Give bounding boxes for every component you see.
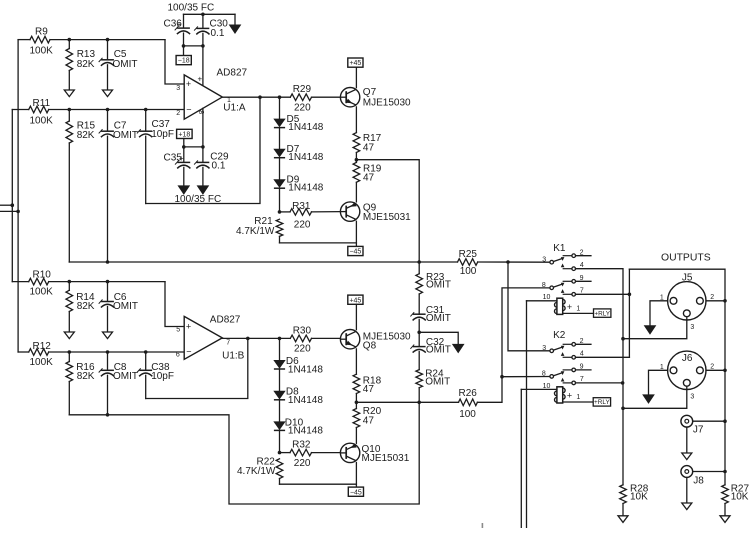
label C31	[426, 305, 445, 316]
label R19 value	[363, 172, 375, 183]
svg-text:R29: R29	[293, 84, 312, 95]
svg-text:R26: R26	[459, 388, 478, 399]
label R32	[292, 440, 311, 451]
capacitor C30	[194, 14, 209, 46]
svg-text:47: 47	[363, 172, 375, 183]
svg-text:1N4148: 1N4148	[288, 395, 323, 406]
label R25	[459, 249, 478, 260]
power +45 (Q7)	[348, 58, 363, 88]
label C36	[164, 19, 183, 30]
wire K1 pin7 to bus	[576, 293, 630, 295]
resistor R27	[722, 485, 729, 516]
label R32 value	[294, 458, 311, 469]
label J5 pin2	[710, 294, 714, 301]
label R16	[76, 362, 95, 373]
node C35 top	[182, 145, 186, 149]
label R18	[363, 375, 382, 386]
svg-text:+: +	[186, 322, 191, 332]
transistor Q9	[340, 202, 359, 221]
label R22 value	[237, 466, 276, 477]
svg-text:100K: 100K	[30, 115, 54, 126]
resistor R31	[280, 209, 341, 216]
svg-text:100K: 100K	[30, 357, 54, 368]
svg-text:82K: 82K	[77, 301, 95, 312]
svg-text:3: 3	[542, 345, 546, 352]
svg-text:K1: K1	[553, 243, 566, 254]
svg-text:10K: 10K	[630, 492, 648, 503]
resistor R26	[459, 288, 550, 406]
label R20 value	[363, 416, 375, 427]
label D10 value	[288, 426, 323, 437]
label C30	[210, 18, 229, 29]
svg-text:82K: 82K	[77, 130, 95, 141]
label R11	[33, 98, 51, 109]
label R26 value	[459, 409, 476, 420]
capacitor C38	[137, 352, 152, 399]
label D7 value	[288, 152, 323, 163]
svg-text:R32: R32	[292, 440, 311, 451]
wire Q8 emitter	[355, 349, 357, 374]
capacitor C6	[99, 282, 114, 332]
wire Q7 emitter	[355, 107, 357, 133]
wire page mark	[481, 523, 483, 528]
wire J5 pin2	[706, 300, 725, 302]
wire K1 pin10	[527, 300, 557, 302]
op-amp U1:B	[184, 316, 222, 359]
label R15 value	[77, 130, 95, 141]
node C8 top	[106, 350, 110, 354]
label K2 pin4	[580, 351, 584, 358]
label K1 pin9	[580, 275, 584, 282]
label Q8	[363, 340, 377, 351]
label D5	[287, 114, 300, 125]
svg-text:0.1: 0.1	[211, 28, 225, 39]
svg-text:OMIT: OMIT	[426, 345, 451, 356]
svg-text:5: 5	[176, 326, 180, 333]
label D9	[287, 174, 300, 185]
label J6 pin1	[660, 364, 664, 371]
label Q10	[362, 444, 381, 455]
resistor R28	[620, 485, 627, 516]
label R10	[33, 269, 52, 280]
label K1 pin1	[576, 306, 580, 313]
svg-text:82K: 82K	[77, 371, 95, 382]
capacitor C32	[410, 332, 425, 369]
wire vertical net R11/R10	[11, 110, 13, 282]
label R28 value	[630, 492, 648, 503]
svg-text:3: 3	[690, 324, 694, 331]
ground C5	[103, 90, 113, 97]
resistor R11	[12, 106, 184, 113]
label K2 pin9	[580, 364, 584, 371]
label C7 value	[113, 130, 138, 141]
resistor R14	[66, 282, 73, 332]
svg-text:7: 7	[226, 339, 230, 346]
svg-text:220: 220	[294, 219, 311, 230]
wire K1 coil to +RLY	[563, 312, 594, 314]
svg-text:10K: 10K	[731, 492, 749, 503]
label R30	[293, 325, 312, 336]
svg-text:MJE15030: MJE15030	[363, 98, 411, 109]
label J7	[693, 425, 704, 436]
label R21	[254, 216, 273, 227]
svg-text:3: 3	[690, 393, 694, 400]
ground arrow C35	[178, 186, 189, 194]
label U1:B minus	[186, 347, 191, 357]
svg-text:2: 2	[176, 110, 180, 117]
label J8	[693, 475, 704, 486]
resistor R15	[66, 110, 73, 263]
svg-text:MJE15031: MJE15031	[363, 212, 411, 223]
resistor R29	[290, 94, 340, 101]
node R24 bottom	[417, 401, 421, 405]
relay K2 pole2	[550, 368, 592, 385]
label C29	[210, 151, 229, 162]
svg-text:−45: −45	[350, 489, 362, 496]
label R13 value	[77, 59, 95, 70]
capacitor C8	[99, 352, 114, 415]
svg-text:8: 8	[542, 282, 546, 289]
node C8 bottom	[106, 413, 110, 417]
node J8 bus	[723, 470, 727, 474]
node output A mid	[355, 158, 359, 162]
svg-text:47: 47	[363, 416, 375, 427]
label R26	[459, 388, 478, 399]
op-amp U1:A	[184, 75, 222, 119]
label R10 value	[30, 286, 54, 297]
label U1:A minus	[186, 105, 191, 115]
node C36 bottom	[182, 44, 186, 48]
label K2 coil plus	[567, 390, 572, 400]
power -18	[176, 46, 191, 65]
svg-text:+: +	[567, 390, 572, 400]
svg-text:82K: 82K	[77, 59, 95, 70]
wire R22 to -45	[280, 483, 357, 485]
svg-text:8: 8	[542, 371, 546, 378]
label R31	[292, 201, 311, 212]
diode D10	[274, 400, 285, 431]
label U1:A Vplus marker	[198, 75, 203, 84]
svg-text:220: 220	[294, 343, 311, 354]
resistor R10	[12, 278, 165, 285]
svg-text:220: 220	[294, 103, 311, 114]
label C31 value	[426, 313, 451, 324]
label C37 value	[151, 129, 174, 140]
ground arrow mid	[419, 332, 464, 352]
transistor Q7	[340, 88, 359, 107]
label K2 pin1	[576, 394, 580, 401]
resistor R21	[276, 219, 283, 243]
label Q8 part	[363, 331, 411, 342]
power +RLY (K2)	[593, 398, 610, 407]
wire bypass bottom rail	[184, 45, 203, 47]
node C38 top	[144, 350, 148, 354]
resistor R16	[66, 352, 73, 415]
svg-text:100K: 100K	[30, 45, 54, 56]
wire J6 pin2	[706, 369, 725, 371]
svg-text:4: 4	[580, 351, 584, 358]
wire K2 coil to +RLY	[563, 401, 594, 403]
wire K2 pin10	[521, 388, 557, 390]
svg-text:+45: +45	[349, 60, 361, 67]
label J5	[682, 273, 693, 284]
ground R28	[618, 516, 628, 523]
label AD827 (U1:B)	[210, 315, 241, 326]
label U1:A pin3	[176, 85, 180, 92]
label bypass bottom 100/35 FC	[175, 194, 222, 205]
label U1:B pin7	[226, 339, 230, 346]
node R15 top	[68, 108, 72, 112]
wire feedback net B	[69, 402, 419, 504]
label U1:B	[222, 350, 245, 361]
node R32/R22 junction	[278, 451, 282, 455]
svg-text:+: +	[186, 79, 191, 89]
label C8	[114, 362, 127, 373]
svg-text:Q8: Q8	[363, 340, 377, 351]
label D8 value	[288, 395, 323, 406]
label U1:A plus	[186, 79, 191, 89]
svg-text:1: 1	[227, 97, 231, 104]
resistor R24	[416, 370, 423, 403]
wire J8 ground	[682, 477, 692, 509]
node R23 net 262	[417, 260, 421, 264]
svg-text:1: 1	[576, 394, 580, 401]
label U1:B pin6	[176, 352, 180, 359]
svg-text:7: 7	[580, 288, 584, 295]
svg-text:4: 4	[580, 262, 584, 269]
ground R14	[64, 332, 74, 339]
resistor R9	[18, 36, 165, 43]
connector J7	[681, 415, 693, 427]
node output B mid	[355, 401, 359, 405]
label U1:B plus	[186, 322, 191, 332]
node input IN- junction	[11, 203, 15, 207]
svg-text:9: 9	[580, 364, 584, 371]
svg-text:3: 3	[542, 256, 546, 263]
ground arrow top rail	[229, 14, 240, 33]
node J6 pin2 bus	[723, 369, 727, 373]
svg-text:OMIT: OMIT	[113, 371, 138, 382]
wire K2 pin10 down	[520, 389, 522, 528]
wire C37 feedback to output	[146, 97, 260, 203]
svg-text:100K: 100K	[30, 286, 54, 297]
node R13 top	[68, 38, 72, 42]
wire output node A	[356, 160, 419, 274]
svg-text:J5: J5	[682, 273, 693, 284]
label C32	[426, 337, 445, 348]
capacitor C7	[99, 110, 114, 263]
wire J5 pin3	[623, 317, 687, 339]
connector J6	[668, 351, 706, 389]
node R14 top	[68, 280, 72, 284]
svg-text:+45: +45	[349, 297, 361, 304]
label U1:A pin8	[197, 110, 204, 114]
label C29 value	[212, 160, 226, 171]
svg-text:R30: R30	[293, 325, 312, 336]
label K1 pin8	[542, 282, 546, 289]
label AD827 (U1:A)	[217, 68, 248, 79]
svg-text:9: 9	[580, 275, 584, 282]
svg-text:AD827: AD827	[217, 68, 248, 79]
node C30 rail	[201, 13, 205, 17]
svg-text:U1:B: U1:B	[222, 350, 245, 361]
label Q9 part	[363, 212, 411, 223]
label R17	[363, 133, 382, 144]
svg-text:AD827: AD827	[210, 315, 241, 326]
label U1:A pin1	[227, 97, 231, 104]
label J6 pin3	[690, 393, 694, 400]
svg-text:10pF: 10pF	[151, 371, 174, 382]
label D10	[285, 417, 304, 428]
label R27 value	[731, 492, 749, 503]
svg-text:+RLY: +RLY	[594, 399, 610, 406]
resistor R18	[353, 374, 360, 402]
label U1:A	[223, 103, 246, 114]
node R31/R21 junction	[278, 210, 282, 214]
label D8	[286, 387, 299, 398]
label K1 pin4	[580, 262, 584, 269]
relay K1 pole1	[550, 254, 592, 271]
resistor R23	[416, 274, 423, 315]
svg-text:R11: R11	[33, 98, 51, 109]
label C5 value	[113, 59, 138, 70]
wire pin2 bus riser	[628, 269, 630, 357]
wire C38 feedback to output	[146, 338, 248, 398]
label R17 value	[363, 142, 375, 153]
svg-text:100/35 FC: 100/35 FC	[175, 194, 222, 205]
svg-text:−: −	[186, 347, 191, 357]
ground R13	[64, 90, 74, 97]
wire U1:A power pin bottom	[202, 108, 204, 147]
label R18 value	[363, 384, 375, 395]
label C5	[114, 49, 127, 60]
node diode string A top	[278, 95, 282, 99]
label R16 value	[77, 371, 95, 382]
wire input stub IN+ (left edge)	[0, 210, 18, 212]
svg-text:1N4148: 1N4148	[288, 182, 323, 193]
label C30 value	[211, 28, 225, 39]
node feedback takeoff A	[258, 95, 262, 99]
node J5 pin3 bus	[621, 337, 625, 341]
node C37 top	[144, 108, 148, 112]
label Q10 part	[362, 453, 410, 464]
power +RLY (K1)	[594, 309, 611, 318]
svg-text:+: +	[179, 154, 184, 163]
wire output node B	[356, 401, 458, 403]
relay K2 label	[553, 330, 566, 341]
label R25 value	[460, 266, 477, 277]
label K2 pin2	[580, 338, 584, 345]
svg-text:1: 1	[576, 306, 580, 313]
label R20	[363, 406, 382, 417]
svg-text:1N4148: 1N4148	[288, 122, 323, 133]
wire R21 to -45	[280, 242, 357, 244]
label J6 pin2	[710, 364, 714, 371]
svg-text:7: 7	[580, 376, 584, 383]
svg-text:47: 47	[363, 142, 375, 153]
wire J7 to bus	[693, 420, 725, 422]
svg-text:OMIT: OMIT	[425, 377, 450, 388]
svg-text:−45: −45	[349, 249, 361, 256]
svg-text:10pF: 10pF	[151, 129, 174, 140]
svg-text:1N4148: 1N4148	[288, 365, 323, 376]
svg-text:−: −	[186, 105, 191, 115]
wire K2 pin7 to bus	[576, 382, 623, 384]
svg-text:2: 2	[710, 364, 714, 371]
label J6	[682, 353, 693, 364]
wire J6 pin3	[623, 386, 687, 408]
resistor R25	[458, 259, 550, 266]
wire vertical net R9/R12	[17, 40, 19, 352]
transistor Q8	[340, 330, 359, 349]
label Q7	[363, 87, 377, 98]
capacitor C29	[194, 147, 209, 186]
svg-text:−18: −18	[178, 58, 190, 65]
node C5 top	[106, 38, 110, 42]
wire input stub IN- (left edge)	[0, 204, 12, 206]
label R30 value	[294, 343, 311, 354]
svg-text:J6: J6	[682, 353, 693, 364]
diode D6	[274, 338, 285, 369]
label U1:A pin2	[176, 110, 180, 117]
wire top bypass rail	[184, 13, 236, 15]
svg-text:2: 2	[710, 294, 714, 301]
wire R10 to op-amp pin5	[165, 282, 184, 327]
node R16 top	[68, 350, 72, 354]
diode D5	[274, 97, 285, 127]
label K1 pin2	[580, 249, 584, 256]
svg-text:R12: R12	[33, 341, 52, 352]
wire pin2 bus top	[629, 269, 725, 485]
label R21 value	[236, 226, 275, 237]
resistor R12	[18, 349, 184, 356]
connector J5	[668, 282, 706, 320]
label R28	[630, 483, 649, 494]
label R29 value	[294, 103, 311, 114]
label R9	[35, 27, 48, 38]
svg-text:100: 100	[460, 266, 477, 277]
svg-text:+: +	[567, 302, 572, 312]
label C38 value	[151, 371, 174, 382]
label J5 pin1	[660, 295, 664, 302]
label R23	[426, 272, 445, 283]
label R19	[363, 164, 382, 175]
wire K2 pin4 to bus	[576, 356, 630, 358]
label C32 value	[426, 345, 451, 356]
label D6 value	[288, 365, 323, 376]
wire U1:A output	[222, 96, 290, 98]
label R12	[33, 341, 52, 352]
node C31/C32 mid	[417, 331, 421, 335]
node J5 pin2 bus	[723, 299, 727, 303]
wire K1 pin4 bus	[576, 269, 624, 485]
resistor R17	[353, 133, 360, 160]
label R13	[77, 49, 96, 60]
wire J5 pin1 ground	[644, 301, 667, 334]
wire D9 to node	[279, 188, 281, 212]
resistor R13	[66, 40, 73, 90]
label K1 pin7	[580, 288, 584, 295]
svg-text:3: 3	[176, 85, 180, 92]
wire U1:B output	[222, 337, 290, 339]
capacitor C5	[99, 40, 114, 90]
node input IN+ junction	[16, 210, 20, 214]
svg-text:OUTPUTS: OUTPUTS	[661, 252, 711, 263]
svg-text:+18: +18	[178, 132, 190, 139]
wire J8 to bus	[693, 471, 725, 473]
label D9 value	[288, 182, 323, 193]
svg-text:220: 220	[294, 458, 311, 469]
